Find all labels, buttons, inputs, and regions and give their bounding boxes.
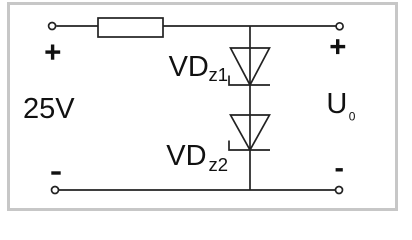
svg-text:VD: VD (169, 51, 209, 83)
svg-text:z2: z2 (209, 154, 229, 175)
svg-text:z1: z1 (209, 64, 229, 85)
svg-text:VD: VD (166, 140, 206, 172)
svg-text:25V: 25V (23, 93, 75, 125)
svg-text:0: 0 (349, 110, 356, 124)
svg-text:U: U (326, 88, 347, 120)
